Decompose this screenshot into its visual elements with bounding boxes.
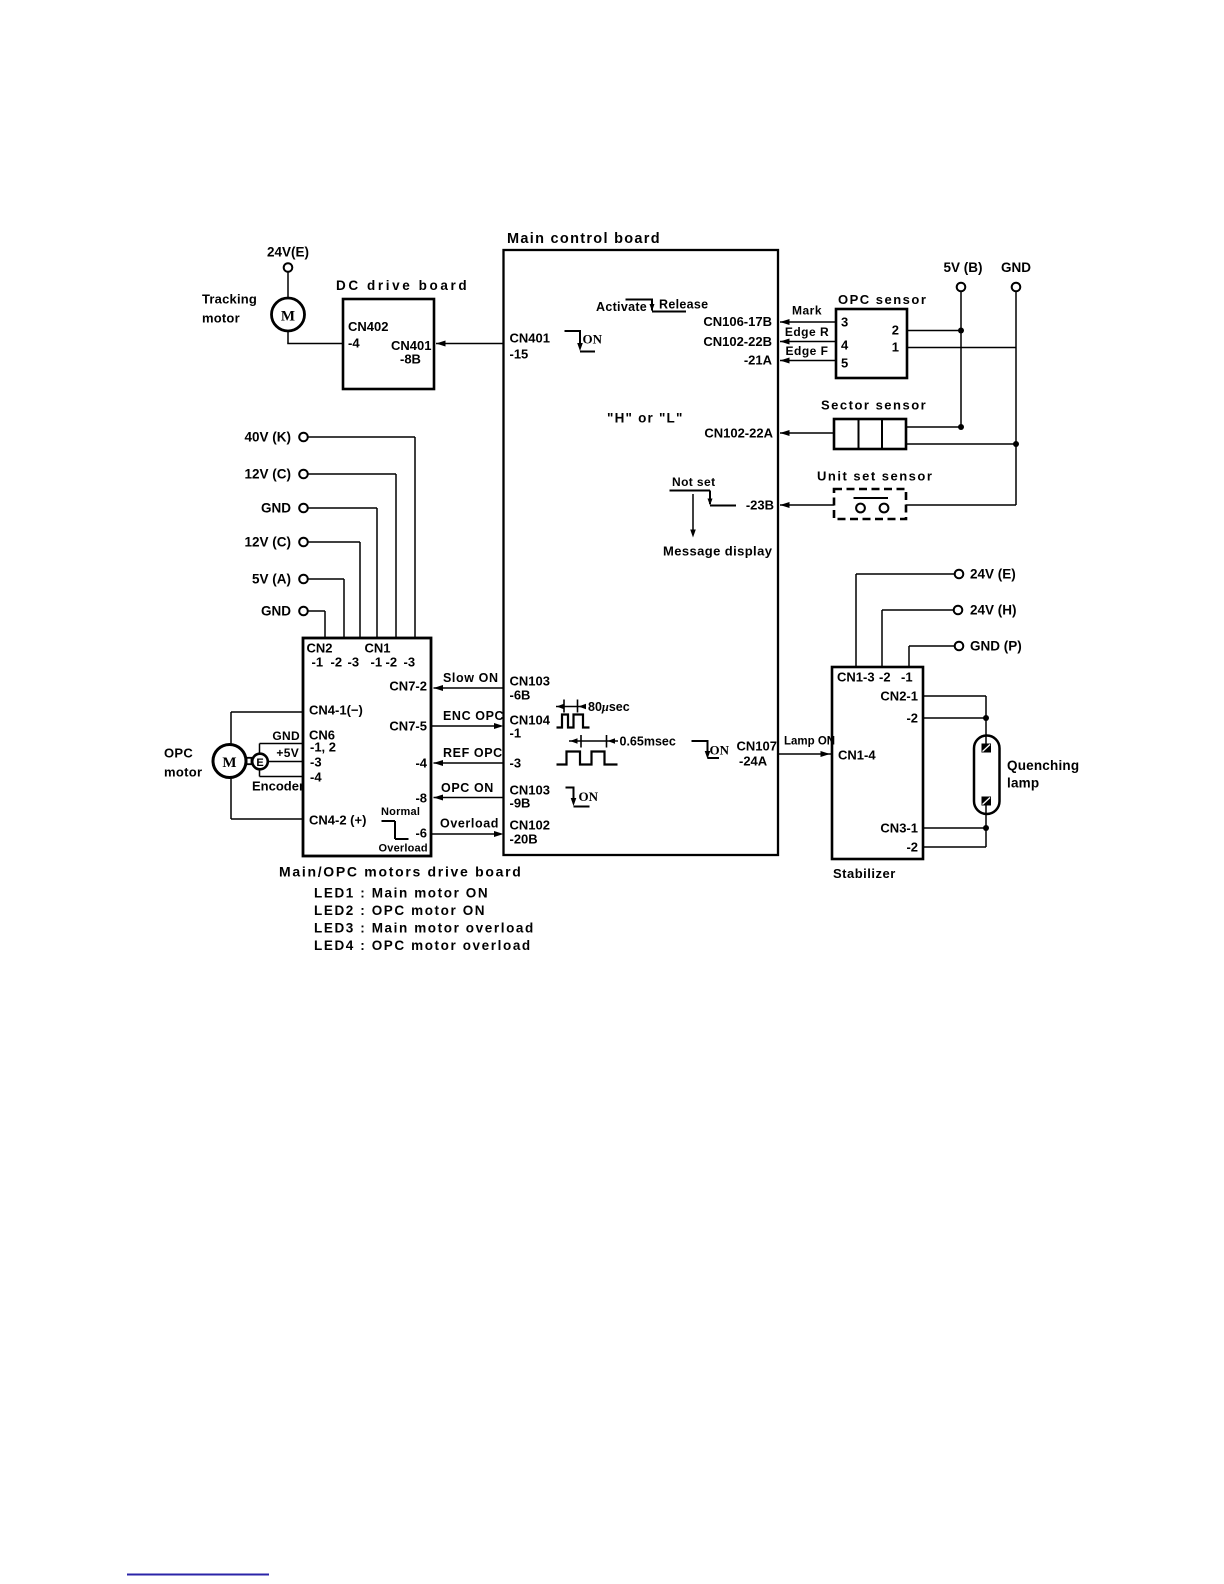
svg-text:"H" or "L": "H" or "L" — [607, 411, 684, 426]
svg-text:-6B: -6B — [510, 688, 531, 703]
terminal 5V(A) — [299, 575, 308, 584]
pin 5 OPC sensor — [841, 356, 848, 371]
label Overload — [440, 817, 499, 831]
wire CN1-2 to 24V(H) — [882, 610, 954, 667]
label Slow ON — [443, 671, 499, 685]
label Message display — [663, 544, 773, 559]
label 5V (B) — [943, 260, 982, 275]
pin CN7-4 — [415, 756, 427, 771]
label Mark — [792, 304, 822, 318]
coupling M-E — [247, 758, 252, 764]
pin 2 OPC sensor — [892, 323, 899, 338]
svg-text:-23B: -23B — [746, 498, 774, 513]
wire GND-2 to drive board — [308, 611, 325, 638]
wire CN1-3 to 24V(E) — [856, 574, 955, 667]
label 12V(C)-1 — [244, 467, 291, 482]
svg-text:3: 3 — [841, 315, 848, 330]
pin group CN1 — [365, 641, 391, 656]
junction OPC2-5V — [958, 328, 964, 334]
svg-text:OPC ON: OPC ON — [441, 781, 494, 795]
svg-text:CN1: CN1 — [365, 641, 391, 656]
wire CN4-1 to OPC motor — [231, 712, 303, 745]
svg-text:GND: GND — [261, 604, 291, 619]
terminal GND-1 — [299, 504, 308, 513]
wire Slow ON — [434, 685, 504, 691]
pin CN2-1 stabilizer — [880, 689, 918, 704]
wire CN2-2 to lamp — [923, 717, 986, 719]
label Activate — [596, 300, 647, 314]
pin CN402-4 — [348, 319, 388, 351]
pin CN7-8 — [415, 791, 427, 806]
svg-text:CN4-1(−): CN4-1(−) — [309, 703, 363, 718]
wire 24V(E) to tracking motor — [287, 272, 289, 299]
label 80usec — [588, 700, 630, 714]
wire encoder +5V CN6-3 — [268, 761, 303, 763]
motor M2 OPC — [213, 745, 246, 778]
pin CN1-1 — [901, 670, 913, 685]
waveform ENC OPC pulses — [557, 715, 590, 728]
waveform ON at CN107 — [692, 741, 720, 759]
svg-text:Overload: Overload — [440, 817, 499, 831]
label LED1 — [314, 886, 489, 901]
pin CN1-3 — [404, 655, 416, 670]
svg-text:CN3-1: CN3-1 — [880, 821, 918, 836]
svg-text:CN103: CN103 — [510, 674, 550, 689]
pin CN104-3 — [510, 756, 522, 771]
unit set sensor U-UNIT — [834, 489, 906, 519]
pin CN103-6B — [510, 674, 550, 703]
waveform ON at CN401-15 — [565, 331, 596, 352]
waveform Normal-Overload — [379, 806, 428, 855]
svg-text:CN106-17B: CN106-17B — [703, 314, 772, 329]
svg-text:LED4 : OPC motor overload: LED4 : OPC motor overload — [314, 938, 532, 953]
wire Edge R OPC4 to CN102-22B — [780, 339, 836, 345]
terminal GND-2 — [299, 607, 308, 616]
label LED3 — [314, 921, 535, 936]
svg-text:0.65msec: 0.65msec — [620, 735, 676, 749]
wire 12V(C)-2 to drive board — [308, 542, 360, 638]
terminal 24V(H) — [954, 606, 963, 615]
wire CN3-1 to lamp — [923, 814, 986, 828]
terminal 40V(K) — [299, 433, 308, 442]
wire tracking motor to DC drive board CN402-4 — [287, 331, 343, 344]
wire REF OPC — [434, 760, 504, 766]
svg-text:Message display: Message display — [663, 544, 773, 559]
svg-text:CN402: CN402 — [348, 319, 388, 334]
terminal 24V(E) — [284, 263, 293, 272]
svg-text:CN2: CN2 — [307, 641, 333, 656]
svg-text:-1: -1 — [312, 655, 324, 670]
label ON at CN401-15 — [583, 332, 603, 347]
svg-text:Stabilizer: Stabilizer — [833, 866, 896, 881]
svg-text:2: 2 — [892, 323, 899, 338]
svg-text:Sector sensor: Sector sensor — [821, 398, 927, 413]
terminal 12V(C)-1 — [299, 470, 308, 479]
label 12V(C)-2 — [244, 535, 291, 550]
label 24V (H) — [970, 603, 1017, 618]
svg-text:Slow ON: Slow ON — [443, 671, 499, 685]
wire unit set sensor to GND — [906, 444, 1016, 505]
label LED4 — [314, 938, 532, 953]
wire 5V(A) to drive board — [308, 579, 344, 638]
pin CN104-1 — [510, 713, 551, 741]
svg-text:GND: GND — [261, 501, 291, 516]
svg-text:Normal: Normal — [381, 806, 420, 818]
pin CN6-1,2 — [310, 740, 336, 755]
label Encoder — [252, 779, 304, 794]
svg-text:-3: -3 — [510, 756, 522, 771]
wire encoder GND CN6-1,2 — [260, 744, 304, 755]
terminal GND top-right — [1012, 283, 1021, 292]
wire sector to GND — [906, 443, 1016, 445]
pin CN3-2 — [906, 840, 918, 855]
svg-text:-3: -3 — [310, 755, 322, 770]
pin -21A — [744, 353, 773, 368]
pin CN1-3 — [837, 670, 875, 685]
pin CN7-5 — [389, 719, 427, 734]
pin CN7-2 — [389, 679, 427, 694]
svg-text:Tracking: Tracking — [202, 292, 257, 307]
unit set sensor contacts — [854, 498, 889, 512]
terminal 24V(E) right — [955, 570, 964, 579]
label ON at CN107 — [710, 743, 730, 758]
junction CN2-2 lamp — [983, 715, 989, 721]
DC drive board U-DC — [343, 299, 434, 389]
svg-text:CN401: CN401 — [510, 331, 550, 346]
quenching lamp LP1 — [974, 736, 1000, 815]
wire OPC2 to 5V(B) — [907, 330, 961, 332]
motor M1 tracking — [272, 298, 305, 331]
pin CN4-1 — [309, 703, 363, 718]
svg-text:-24A: -24A — [739, 754, 768, 769]
pin 1 OPC sensor — [892, 340, 899, 355]
pin CN107-24A — [737, 739, 777, 769]
stabilizer caption — [833, 866, 896, 881]
svg-text:ENC OPC: ENC OPC — [443, 709, 504, 723]
pin CN3-1 — [880, 821, 918, 836]
wire Overload — [431, 831, 504, 837]
svg-text:5: 5 — [841, 356, 848, 371]
svg-text:-2: -2 — [906, 711, 918, 726]
arrow to Message display — [690, 494, 696, 538]
svg-text:Edge F: Edge F — [785, 344, 828, 358]
pin 4 OPC sensor — [841, 338, 849, 353]
OPC motor label — [164, 746, 202, 780]
pin CN103-9B — [510, 783, 550, 811]
svg-text:-3: -3 — [348, 655, 360, 670]
label GND (P) — [970, 639, 1022, 654]
pin CN1-2 — [879, 670, 891, 685]
svg-text:-4: -4 — [348, 336, 360, 351]
pin CN6-4 — [310, 770, 322, 785]
svg-text:Main control board: Main control board — [507, 231, 661, 247]
waveform ON at CN103-9B — [566, 788, 590, 807]
label 24V (E) right — [970, 567, 1016, 582]
svg-text:ON: ON — [579, 789, 599, 804]
svg-text:GND: GND — [1001, 260, 1031, 275]
svg-text:CN2-1: CN2-1 — [880, 689, 918, 704]
svg-text:-2: -2 — [386, 655, 398, 670]
svg-text:-9B: -9B — [510, 796, 531, 811]
wire 40V(K) to drive board — [308, 437, 415, 638]
pin -23B — [746, 498, 774, 513]
svg-text:Lamp ON: Lamp ON — [784, 736, 835, 748]
pin CN401-15 — [510, 331, 550, 362]
wire Mark OPC3 to CN106-17B — [780, 319, 836, 325]
svg-text:ON: ON — [583, 332, 603, 347]
wire 5V(B) vertical — [960, 292, 962, 428]
pin CN2-2 stabilizer — [906, 711, 918, 726]
pin CN4-2 — [309, 813, 366, 828]
svg-text:CN107: CN107 — [737, 739, 777, 754]
svg-text:M: M — [281, 309, 295, 325]
svg-text:24V(E): 24V(E) — [267, 245, 309, 260]
svg-text:1: 1 — [892, 340, 899, 355]
label Not set — [672, 475, 715, 489]
svg-text:motor: motor — [202, 311, 240, 326]
svg-text:CN102: CN102 — [510, 818, 550, 833]
pin CN7-6 — [415, 826, 427, 841]
label 0.65msec — [620, 735, 676, 749]
svg-text:12V (C): 12V (C) — [244, 467, 291, 482]
svg-text:-1: -1 — [510, 726, 522, 741]
pin CN102-20B — [510, 818, 550, 847]
terminal 24V(E) label — [267, 245, 309, 260]
svg-text:24V (H): 24V (H) — [970, 603, 1017, 618]
svg-text:-21A: -21A — [744, 353, 773, 368]
pin CN102-22B — [703, 334, 772, 349]
terminal GND(P) — [955, 642, 964, 651]
svg-text:OPC sensor: OPC sensor — [838, 292, 927, 307]
wire encoder CN6-4 — [260, 769, 304, 776]
pin CN6-3 — [310, 755, 322, 770]
svg-text:Unit set sensor: Unit set sensor — [817, 469, 933, 484]
svg-text:DC drive board: DC drive board — [336, 278, 469, 293]
terminal 12V(C)-2 — [299, 538, 308, 547]
svg-text:+5V: +5V — [276, 746, 299, 760]
junction CN3-1 lamp — [983, 825, 989, 831]
wire ENC OPC — [431, 723, 504, 729]
wire CN2-1 to lamp — [923, 696, 986, 736]
label 40V(K) — [244, 430, 291, 445]
svg-text:CN7-5: CN7-5 — [389, 719, 427, 734]
label Release — [659, 298, 708, 312]
svg-text:Quenching: Quenching — [1007, 758, 1079, 773]
waveform REF OPC pulses — [557, 752, 618, 765]
stabilizer U-STB — [832, 667, 923, 859]
blue rule — [127, 1574, 269, 1576]
svg-text:CN1-4: CN1-4 — [838, 748, 876, 763]
pin CN102-22A — [704, 426, 773, 441]
label Lamp ON — [784, 736, 835, 748]
pin CN1-1 — [371, 655, 383, 670]
label ENC OPC — [443, 709, 504, 723]
svg-text:Main/OPC motors drive board: Main/OPC motors drive board — [279, 864, 523, 880]
OPC sensor title — [838, 292, 927, 307]
svg-text:Overload: Overload — [379, 843, 428, 855]
wire sector to 5V(B) — [906, 426, 961, 428]
svg-text:-8B: -8B — [400, 352, 421, 367]
svg-text:REF OPC: REF OPC — [443, 746, 503, 760]
Unit set sensor title — [817, 469, 933, 484]
svg-text:CN102-22B: CN102-22B — [703, 334, 772, 349]
svg-text:-2: -2 — [331, 655, 343, 670]
svg-text:-15: -15 — [510, 347, 529, 362]
svg-text:CN7-2: CN7-2 — [389, 679, 427, 694]
svg-text:E: E — [256, 757, 263, 769]
wire OPC1 to GND — [907, 347, 1016, 349]
wire GND vertical — [1015, 292, 1017, 445]
svg-text:-8: -8 — [415, 791, 427, 806]
svg-text:4: 4 — [841, 338, 849, 353]
wire Edge F OPC5 to -21A — [780, 358, 836, 364]
wire Lamp ON CN107 to CN1-4 — [779, 751, 833, 757]
svg-text:-4: -4 — [415, 756, 427, 771]
wire 12V(C)-1 to drive board — [308, 474, 396, 638]
tracking motor label — [202, 292, 257, 326]
svg-text:Mark: Mark — [792, 304, 822, 318]
label REF OPC — [443, 746, 503, 760]
svg-text:OPC: OPC — [164, 746, 193, 761]
svg-text:LED3 : Main motor overload: LED3 : Main motor overload — [314, 921, 535, 936]
wire sector to CN102-22A — [780, 430, 834, 436]
svg-text:GND (P): GND (P) — [970, 639, 1022, 654]
waveform Not set — [670, 491, 737, 506]
svg-text:GND: GND — [272, 729, 300, 743]
dimension 0.65msec — [569, 735, 618, 748]
svg-text:-3: -3 — [404, 655, 416, 670]
svg-text:-1, 2: -1, 2 — [310, 740, 336, 755]
encoder E1 — [252, 754, 268, 770]
pin CN2-2 — [331, 655, 343, 670]
motors drive board caption — [279, 864, 523, 880]
svg-text:80μsec: 80μsec — [588, 700, 630, 714]
label H or L — [607, 411, 684, 426]
wire CN4-2 to OPC motor — [231, 778, 303, 820]
label OPC ON — [441, 781, 494, 795]
svg-text:Not set: Not set — [672, 475, 715, 489]
svg-text:40V (K): 40V (K) — [244, 430, 291, 445]
svg-text:24V (E): 24V (E) — [970, 567, 1016, 582]
svg-text:5V (B): 5V (B) — [943, 260, 982, 275]
svg-text:Activate: Activate — [596, 300, 647, 314]
svg-text:5V (A): 5V (A) — [252, 572, 291, 587]
svg-text:CN102-22A: CN102-22A — [704, 426, 773, 441]
label GND-1 — [261, 501, 291, 516]
svg-text:Release: Release — [659, 298, 708, 312]
sector sensor U-SEC — [834, 419, 906, 449]
svg-text:CN1-3: CN1-3 — [837, 670, 875, 685]
svg-text:M: M — [222, 755, 236, 771]
svg-text:-20B: -20B — [510, 832, 538, 847]
motors drive board U-DRV — [303, 638, 431, 856]
junction sector-5V — [958, 424, 964, 430]
OPC sensor U-OPC — [836, 309, 907, 378]
wire OPC ON — [434, 795, 504, 801]
svg-text:CN4-2 (+): CN4-2 (+) — [309, 813, 366, 828]
label GND top-right — [1001, 260, 1031, 275]
wire CN1-1 to GND(P) — [909, 646, 955, 667]
pin 3 OPC sensor — [841, 315, 848, 330]
svg-text:lamp: lamp — [1007, 776, 1039, 791]
main control board U-MAIN — [504, 250, 779, 855]
svg-text:Encoder: Encoder — [252, 779, 304, 794]
label GND encoder — [272, 729, 300, 743]
label Quenching lamp — [1007, 758, 1079, 791]
svg-text:LED2 : OPC motor ON: LED2 : OPC motor ON — [314, 903, 486, 918]
label Edge R — [785, 325, 829, 339]
wire CN401-15 to CN401-8B — [436, 341, 504, 347]
pin group CN2 — [307, 641, 333, 656]
wire GND-1 to drive board — [308, 508, 377, 638]
svg-text:motor: motor — [164, 765, 202, 780]
svg-text:-2: -2 — [906, 840, 918, 855]
pin CN1-4 — [838, 748, 876, 763]
svg-text:LED1 : Main motor ON: LED1 : Main motor ON — [314, 886, 489, 901]
svg-text:-2: -2 — [879, 670, 891, 685]
wire CN3-2 to lamp — [923, 828, 986, 847]
main control board title — [507, 231, 661, 247]
label 5V(A) — [252, 572, 291, 587]
label Edge F — [785, 344, 828, 358]
svg-text:ON: ON — [710, 743, 730, 758]
pin CN106-17B — [703, 314, 772, 329]
label +5V encoder — [276, 746, 299, 760]
svg-text:-6: -6 — [415, 826, 427, 841]
pin group CN6 — [309, 728, 335, 743]
pin CN2-1 — [312, 655, 324, 670]
pin CN2-3 — [348, 655, 360, 670]
junction sector-GND — [1013, 441, 1019, 447]
label GND-2 — [261, 604, 291, 619]
wire unit set sensor to -23B — [780, 502, 834, 508]
Sector sensor title — [821, 398, 927, 413]
DC drive board title — [336, 278, 469, 293]
pin CN1-2 — [386, 655, 398, 670]
label LED2 — [314, 903, 486, 918]
svg-text:-4: -4 — [310, 770, 322, 785]
svg-text:-1: -1 — [901, 670, 913, 685]
svg-text:-1: -1 — [371, 655, 383, 670]
svg-text:12V (C): 12V (C) — [244, 535, 291, 550]
svg-text:Edge R: Edge R — [785, 325, 829, 339]
waveform Activate-Release — [626, 299, 687, 312]
dimension 80usec — [556, 700, 586, 713]
label ON at CN103-9B — [579, 789, 599, 804]
pin CN401-8B — [391, 338, 431, 367]
terminal 5V(B) — [957, 283, 966, 292]
